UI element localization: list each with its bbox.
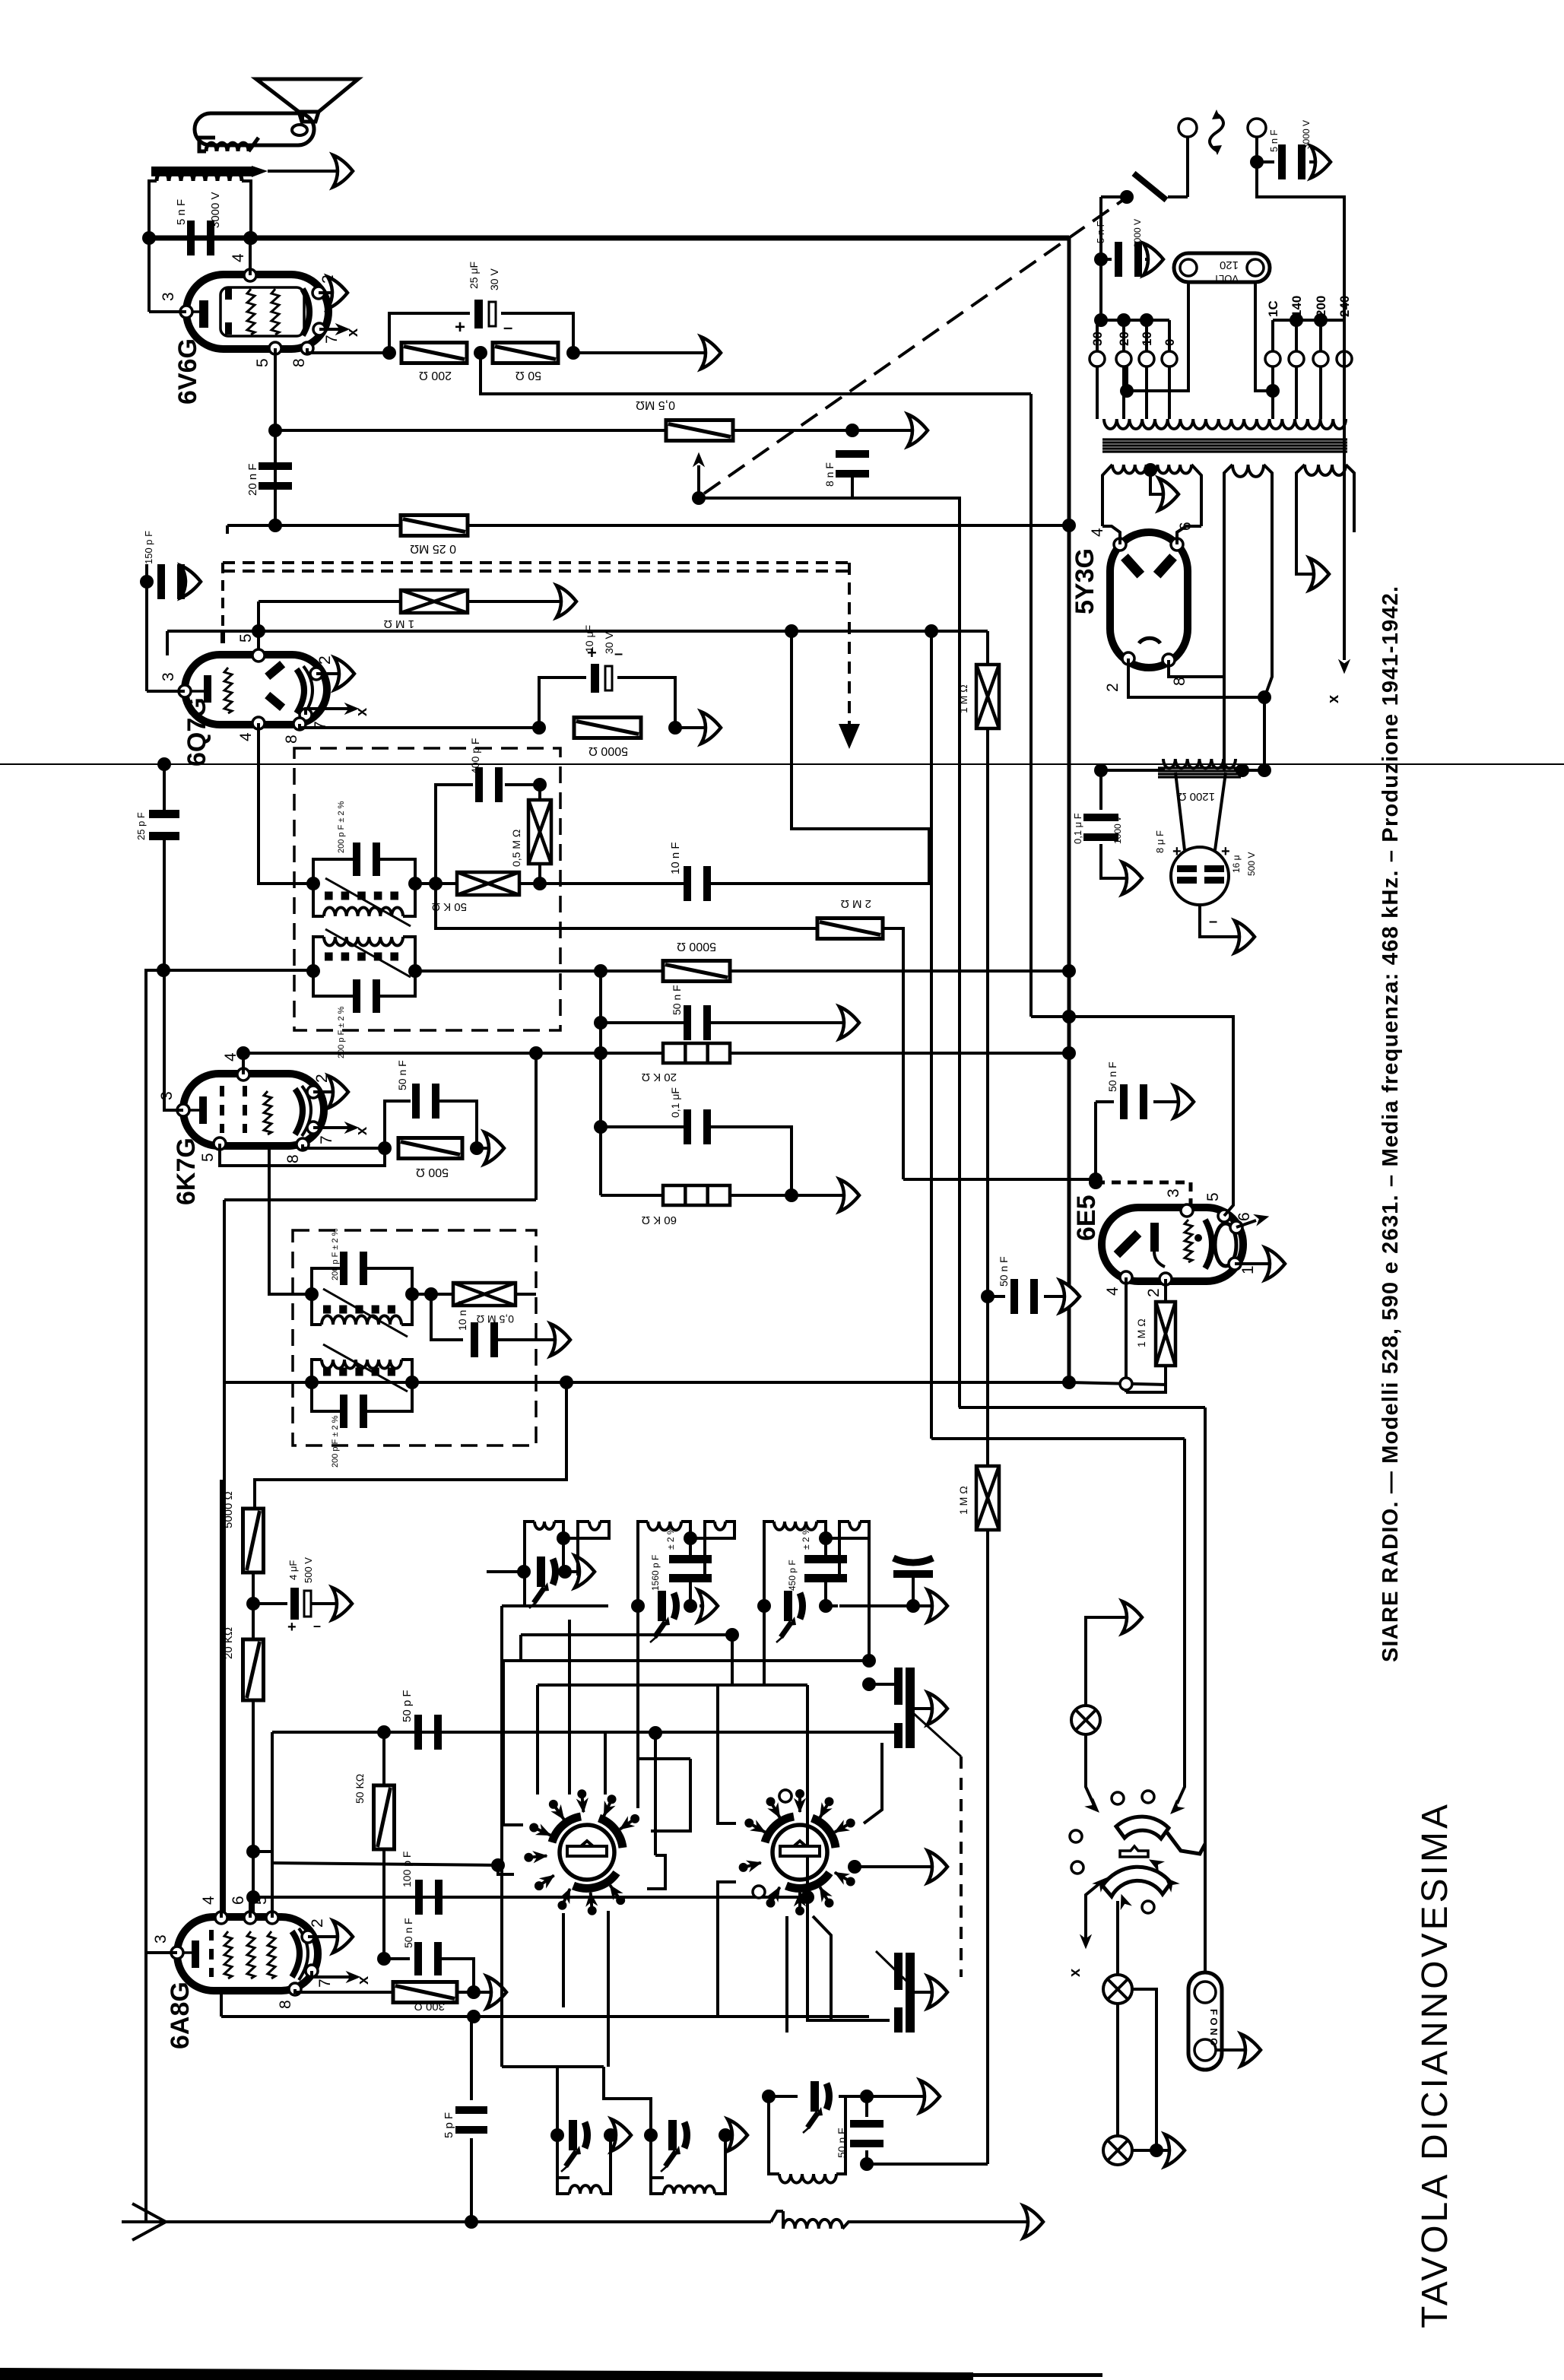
svg-text:5 n F: 5 n F bbox=[1095, 221, 1106, 243]
tube 6V6G envelope bbox=[186, 274, 328, 349]
6E5 pins bbox=[1181, 1204, 1193, 1217]
wire core to terminal bbox=[268, 170, 348, 173]
svg-text:5: 5 bbox=[254, 358, 271, 367]
wire pin8 anode row y957 bbox=[300, 724, 539, 728]
svg-text:5 n F: 5 n F bbox=[1268, 129, 1280, 152]
left long rail bbox=[146, 970, 313, 1932]
resistor 0.5 Mohm bbox=[666, 420, 733, 441]
capacitor 50nF osc tank bbox=[850, 2120, 884, 2128]
B+ bus wire bbox=[149, 236, 1069, 241]
svg-text:8 n F: 8 n F bbox=[823, 462, 836, 487]
capacitor 20nF bbox=[259, 462, 292, 470]
resistor 500 ohm bbox=[398, 1138, 462, 1159]
capacitor 4uF 500V bbox=[253, 1602, 287, 1605]
wire 8nF down to y655 bbox=[699, 478, 852, 498]
resistor 0.25 Mohm bbox=[401, 516, 468, 536]
resistor 5000 ohm vert bbox=[243, 1509, 264, 1572]
wire pin8 down bbox=[295, 1989, 393, 1992]
resistor 2 Mohm bbox=[817, 919, 883, 939]
svg-text:30 V: 30 V bbox=[603, 632, 615, 654]
svg-text:3000 V: 3000 V bbox=[209, 192, 222, 228]
osc tank B bbox=[651, 2135, 664, 2178]
bus y1892 bbox=[931, 1437, 1185, 1440]
wire IF1b to right bbox=[415, 969, 1069, 973]
secondary winding HT bbox=[1112, 465, 1191, 474]
tube 6E5 envelope bbox=[1102, 1207, 1243, 1281]
svg-text:x: x bbox=[1067, 1969, 1083, 1977]
RF tank 1 trimmer bbox=[517, 1565, 531, 1579]
svg-text:4: 4 bbox=[200, 1896, 217, 1905]
AC squiggle bbox=[1210, 114, 1223, 151]
svg-text:1000 v: 1000 v bbox=[1112, 817, 1123, 844]
svg-text:–: – bbox=[503, 318, 512, 337]
grid cap dashed entry bbox=[220, 633, 225, 655]
capacitor 450pF bbox=[804, 1555, 847, 1563]
bus y1851 bbox=[959, 1406, 1205, 1409]
wire 120V left leg bbox=[1127, 282, 1188, 391]
secondary winding mid bbox=[1232, 465, 1264, 477]
capacitor 5pF antenna bbox=[470, 2017, 473, 2100]
svg-text:100 p F: 100 p F bbox=[401, 1852, 413, 1887]
wire primary right down bbox=[242, 181, 251, 236]
svg-text:5: 5 bbox=[237, 633, 255, 643]
capacitor 10nF bbox=[684, 866, 691, 901]
IF1 upper tank box bbox=[313, 859, 356, 884]
bus down x1356 bbox=[1029, 394, 1033, 1017]
svg-text:2 M Ω: 2 M Ω bbox=[841, 897, 871, 910]
scan fold line bbox=[0, 763, 1564, 765]
svg-text:4: 4 bbox=[237, 732, 255, 741]
wire diode load down bbox=[436, 884, 817, 928]
svg-text:10 μF: 10 μF bbox=[583, 625, 595, 652]
svg-text:4: 4 bbox=[230, 253, 247, 262]
tube 6K7G envelope bbox=[183, 1074, 324, 1146]
IF1 shield dashed box bbox=[294, 748, 560, 1030]
resistor 1 Mohm AVC lower bbox=[976, 1466, 999, 1530]
tube 5Y3G envelope bbox=[1110, 532, 1188, 668]
svg-text:500 V: 500 V bbox=[1246, 852, 1257, 876]
svg-text:3: 3 bbox=[1165, 1188, 1182, 1198]
secondary winding left box bbox=[1102, 465, 1112, 526]
wire pin4 up bbox=[249, 238, 252, 275]
wire primary left down bbox=[149, 181, 157, 236]
wire 6K7G plate down to IF2 bbox=[269, 1147, 312, 1294]
RF tank 3 bbox=[764, 1522, 774, 1606]
svg-text:–: – bbox=[1209, 913, 1217, 930]
svg-text:25 μF: 25 μF bbox=[468, 262, 480, 289]
antenna bus bbox=[166, 2220, 771, 2223]
wire pin4 up to bus bbox=[242, 1053, 245, 1074]
x down arrow right bbox=[1339, 660, 1350, 673]
wire IF1 tanks mid bbox=[415, 882, 457, 885]
secondary winding right bbox=[1305, 465, 1346, 475]
X arrow pin7 bbox=[306, 709, 350, 715]
svg-text:2: 2 bbox=[1145, 1288, 1163, 1297]
capacitor 5nF 3000V bbox=[187, 221, 195, 255]
svg-text:0,5 MΩ: 0,5 MΩ bbox=[636, 398, 675, 411]
svg-text:0,5 M Ω: 0,5 M Ω bbox=[510, 830, 522, 867]
wire y2112 to arrow bbox=[839, 1604, 937, 1607]
svg-text:3: 3 bbox=[160, 292, 177, 301]
terminal arrow row y566 bbox=[908, 414, 928, 446]
svg-text:300 Ω: 300 Ω bbox=[414, 2000, 445, 2013]
dash-dot line to mains switch bbox=[704, 198, 1125, 493]
wire 25pF bbox=[163, 764, 166, 811]
6Q7G inner structure bbox=[204, 675, 211, 703]
mains terminal 2 bbox=[1248, 119, 1266, 137]
wire 50ohm tap down to bus bbox=[481, 353, 1031, 394]
wire to chassis arrow bbox=[573, 351, 715, 354]
mains terminal 1 bbox=[1179, 119, 1197, 137]
resistor 0.5 Mohm IF2 bbox=[453, 1283, 516, 1306]
electrolytic bottom lead bbox=[1200, 905, 1247, 937]
svg-text:200 p F ± 2 %: 200 p F ± 2 % bbox=[331, 1415, 340, 1468]
RF tank1 bottom bbox=[502, 1604, 608, 1607]
lamp L2 bbox=[1103, 1975, 1132, 2004]
power transformer primary winding bbox=[1104, 419, 1346, 429]
wire row y830 AVC bus bbox=[167, 630, 988, 633]
6K7G pins bbox=[237, 1068, 249, 1081]
svg-text:50 n F: 50 n F bbox=[998, 1256, 1010, 1287]
S1 spare contacts bbox=[779, 1790, 792, 1802]
node bbox=[594, 1016, 608, 1030]
svg-text:4 μF: 4 μF bbox=[287, 1560, 299, 1580]
up arrow AVC bbox=[697, 465, 700, 498]
speaker bbox=[256, 79, 358, 122]
svg-text:8: 8 bbox=[290, 358, 308, 367]
electrolytic leads bbox=[1175, 773, 1185, 850]
svg-text:6: 6 bbox=[1236, 1212, 1253, 1221]
svg-text:200 Ω: 200 Ω bbox=[419, 369, 452, 382]
svg-text:–: – bbox=[614, 646, 623, 662]
tube 6A8G envelope bbox=[177, 1917, 318, 1991]
lamp L3 wires bbox=[1132, 2149, 1177, 2152]
capacitor 5nF 3000V line bbox=[1250, 155, 1264, 169]
svg-text:7: 7 bbox=[316, 1979, 334, 1988]
svg-text:4: 4 bbox=[222, 1052, 240, 1061]
open junction 6E5 pin4 bbox=[1069, 1382, 1167, 1385]
X arrow pin7 bbox=[313, 1126, 350, 1129]
svg-text:8: 8 bbox=[1171, 677, 1188, 686]
svg-text:6: 6 bbox=[230, 1896, 247, 1905]
svg-text:500 V: 500 V bbox=[303, 1557, 314, 1583]
resistor 50 Kohm vert bbox=[382, 1732, 385, 1785]
6V6G inner structure bbox=[220, 287, 304, 336]
cathode bypass loop bbox=[389, 313, 470, 353]
wire pin3 left bbox=[146, 1951, 177, 1954]
resistor 50 Kohm bbox=[457, 872, 519, 895]
output transformer core bbox=[151, 167, 252, 176]
wire grid return left bbox=[148, 238, 151, 312]
terminal arrow bbox=[333, 155, 353, 187]
lamp L1 bbox=[1071, 1706, 1100, 1734]
lamp L2 wires bbox=[1132, 1989, 1156, 2150]
svg-text:6Q7G: 6Q7G bbox=[182, 697, 211, 766]
capacitor 50nF mid bbox=[601, 1021, 687, 1024]
svg-text:x: x bbox=[355, 1976, 372, 1985]
wire 50nF corner down bbox=[472, 1960, 475, 1992]
svg-text:1 M Ω: 1 M Ω bbox=[1135, 1319, 1147, 1347]
svg-text:SIARE RADIO. — Modelli 528, 59: SIARE RADIO. — Modelli 528, 590 e 2631. … bbox=[1378, 585, 1403, 1662]
svg-text:450 p F: 450 p F bbox=[787, 1560, 798, 1591]
svg-text:6K7G: 6K7G bbox=[172, 1138, 201, 1205]
wire cathode loop 6K7G bbox=[220, 1144, 385, 1166]
RF tank 2 bbox=[638, 1522, 648, 1606]
antenna symbol bbox=[132, 2204, 166, 2240]
svg-text:30 V: 30 V bbox=[488, 268, 500, 290]
svg-text:200 p F ± 2 %: 200 p F ± 2 % bbox=[337, 801, 346, 853]
svg-text:+: + bbox=[1221, 843, 1230, 860]
IF1b coil bbox=[324, 937, 403, 946]
wire pin8 down bbox=[303, 1144, 385, 1148]
svg-text:5: 5 bbox=[199, 1153, 217, 1162]
gang stator stub bbox=[869, 1683, 894, 1686]
wire pin3 left bbox=[149, 310, 186, 313]
anode loop 10uF bbox=[539, 678, 586, 728]
svg-text:5 n F: 5 n F bbox=[175, 199, 188, 225]
5Y3G plate wires bbox=[1102, 526, 1120, 544]
wire 6Q7G pin4 down to IF1 bbox=[259, 723, 313, 884]
voice coil bbox=[206, 143, 249, 151]
capacitor 1560pF bbox=[669, 1555, 712, 1563]
svg-text:7: 7 bbox=[318, 1135, 335, 1144]
5Y3G inner structure bbox=[1121, 554, 1144, 578]
IF2b tank bbox=[322, 1360, 401, 1369]
svg-text:x: x bbox=[344, 328, 361, 337]
antenna coil bbox=[771, 2211, 783, 2222]
node B+ right bbox=[244, 231, 258, 245]
capacitor 50nF osc bbox=[384, 1957, 410, 1960]
wire 50K to 10nF row bbox=[540, 882, 687, 885]
capacitor 150pF bbox=[140, 575, 154, 589]
400pF loop bbox=[436, 785, 473, 884]
wire contact to lamp2 bbox=[1116, 1901, 1119, 1975]
node B+ left bbox=[142, 231, 156, 245]
gang diagonal bbox=[912, 1712, 961, 1756]
resistor 5000 ohm mid bbox=[663, 961, 730, 982]
resistor 50 ohm bbox=[493, 343, 558, 363]
wire pin5 up bbox=[1031, 1017, 1233, 1216]
svg-text:50 p F: 50 p F bbox=[401, 1690, 414, 1722]
resistor 1 Mohm row y791 bbox=[259, 600, 400, 603]
wire 10nF right bbox=[711, 631, 929, 884]
wire IF2 mid bbox=[412, 1293, 453, 1296]
svg-text:50 n F: 50 n F bbox=[836, 2128, 848, 2158]
wire gang bottom bbox=[807, 1897, 890, 2020]
svg-text:± 2 %: ± 2 % bbox=[801, 1526, 811, 1550]
RF tank 3 trimmer bbox=[757, 1599, 771, 1613]
wire choke node down bbox=[1236, 763, 1249, 777]
X arrow pin7 bbox=[319, 328, 341, 331]
wire 8nF row to right bus bbox=[852, 498, 960, 1407]
wire x295 rail bbox=[224, 1198, 536, 1201]
svg-text:5000 Ω: 5000 Ω bbox=[588, 744, 628, 757]
svg-text:1 M Ω: 1 M Ω bbox=[957, 684, 969, 713]
S3 foot to FONO bbox=[1167, 1833, 1205, 1854]
bus y1551 bbox=[903, 1178, 1096, 1181]
bus y1385 bbox=[243, 1052, 1069, 1055]
svg-text:5: 5 bbox=[1204, 1192, 1222, 1201]
wire pin3 left bbox=[164, 1109, 183, 1112]
S1 contact wires bbox=[503, 1685, 523, 1825]
wire pin5 down bbox=[274, 348, 277, 525]
svg-text:6A8G: 6A8G bbox=[166, 1982, 195, 2049]
dual electrolytic 8uF 16uF bbox=[1171, 847, 1229, 905]
svg-text:8: 8 bbox=[284, 1154, 302, 1163]
wire pin2 terminal bbox=[308, 1935, 345, 1938]
svg-text:200 p F ± 2 %: 200 p F ± 2 % bbox=[337, 1006, 346, 1058]
terminal arrow y957 bbox=[701, 712, 721, 744]
wire pin5 up bbox=[271, 1732, 274, 1918]
shielded grid lead double dashed bbox=[223, 561, 849, 564]
svg-text:3000 V: 3000 V bbox=[1132, 219, 1143, 248]
output primary coil bbox=[157, 172, 242, 181]
wire pin3 left bbox=[147, 690, 185, 693]
vertical x1143 bbox=[868, 1559, 871, 1661]
wire 400pF from B+ node bbox=[538, 785, 541, 800]
switch S3 key bbox=[1120, 1846, 1148, 1857]
long vertical x1225 from AVC bus bbox=[930, 631, 933, 1439]
S3 contact dots bbox=[1112, 1792, 1124, 1804]
secondary center tap bbox=[1144, 463, 1157, 477]
IF2 shield dashed box bbox=[293, 1230, 536, 1445]
resistor 200 ohm bbox=[401, 343, 467, 363]
resistor 1 Mohm 6E5 bbox=[1164, 1279, 1167, 1302]
S3 lower contacts bbox=[1093, 1874, 1110, 1891]
svg-text:50 n F: 50 n F bbox=[402, 1918, 414, 1948]
capacitor 25pF vertical bbox=[157, 757, 171, 771]
svg-text:2: 2 bbox=[316, 655, 334, 665]
wire pin4 down bbox=[1125, 1277, 1128, 1392]
wire left end y830 bbox=[166, 631, 169, 655]
resistor 20 Kohm vert bbox=[243, 1639, 264, 1700]
dashed grid link 6E5 bbox=[1096, 1181, 1191, 1185]
IF1a coil bbox=[324, 907, 403, 916]
wire 150pF stub bbox=[226, 525, 229, 534]
FONO jack bbox=[1188, 1972, 1222, 2070]
svg-text:7: 7 bbox=[323, 335, 341, 344]
svg-text:20 n F: 20 n F bbox=[246, 463, 259, 496]
svg-text:10 n F: 10 n F bbox=[669, 842, 682, 874]
svg-text:8 μ F: 8 μ F bbox=[1154, 830, 1166, 853]
speaker horn bbox=[195, 113, 314, 145]
X arrow pin7 bbox=[312, 1971, 351, 1977]
variable capacitor osc section bbox=[894, 1953, 903, 1990]
wire row y566 bbox=[275, 429, 665, 432]
wire cathode down to choke node bbox=[1263, 697, 1266, 770]
RF tank 1 coils bbox=[525, 1522, 535, 1606]
svg-text:20 K Ω: 20 K Ω bbox=[642, 1071, 677, 1084]
svg-text:x: x bbox=[354, 1127, 370, 1135]
svg-text:0,1 μF: 0,1 μF bbox=[669, 1087, 681, 1118]
variable capacitor antenna section bbox=[894, 1668, 903, 1705]
wire row y691 bbox=[227, 524, 1069, 527]
node y691 bbox=[268, 519, 282, 532]
osc tank C bbox=[769, 2096, 779, 2174]
wire from y1892 down to switch S3 bbox=[1177, 1439, 1185, 1804]
svg-text:1560 p F: 1560 p F bbox=[650, 1555, 661, 1591]
IF1a core dashes bbox=[325, 892, 333, 900]
capacitor 50pF bbox=[414, 1715, 422, 1750]
6E5 inner structure bbox=[1114, 1230, 1142, 1258]
S2 spare contacts bbox=[779, 1790, 792, 1802]
svg-text:± 2 %: ± 2 % bbox=[665, 1526, 676, 1550]
svg-text:150 p F: 150 p F bbox=[143, 531, 154, 564]
svg-text:TAVOLA DICIANNOVESIMA: TAVOLA DICIANNOVESIMA bbox=[1415, 1801, 1455, 2328]
antenna trimmer bbox=[868, 1538, 871, 1559]
IF1b tuning arrow bbox=[325, 929, 411, 977]
svg-text:1200 Ω: 1200 Ω bbox=[1178, 790, 1215, 803]
left rail to antenna bbox=[144, 1932, 148, 2222]
vertical from pin5 6Q7G bbox=[257, 631, 260, 655]
svg-text:50 n F: 50 n F bbox=[671, 985, 683, 1015]
svg-text:5Y3G: 5Y3G bbox=[1071, 548, 1099, 614]
svg-text:+: + bbox=[1172, 843, 1182, 860]
tube 6Q7G envelope bbox=[185, 655, 327, 725]
resistor 300 ohm bbox=[393, 1982, 457, 2003]
6V6G pins bbox=[244, 269, 256, 281]
svg-text:+: + bbox=[287, 1619, 297, 1636]
capacitor 200pF IF1b bbox=[313, 971, 356, 996]
wire row 50pF y2278 bbox=[272, 1731, 894, 1734]
wire pin2 terminal bbox=[316, 672, 347, 675]
svg-text:x: x bbox=[1325, 695, 1342, 703]
svg-text:6V6G: 6V6G bbox=[173, 338, 202, 405]
FONO wires bbox=[1204, 1835, 1207, 1972]
svg-text:10 n F: 10 n F bbox=[456, 1300, 468, 1331]
svg-text:50 n F: 50 n F bbox=[1106, 1061, 1118, 1092]
6K7G inner structure bbox=[199, 1096, 207, 1124]
svg-text:2: 2 bbox=[1104, 683, 1121, 692]
svg-text:60 K Ω: 60 K Ω bbox=[642, 1214, 677, 1226]
svg-text:1C: 1C bbox=[1266, 300, 1280, 317]
svg-text:1: 1 bbox=[1239, 1265, 1257, 1274]
svg-text:–: – bbox=[313, 1618, 321, 1633]
bus y1818 bbox=[224, 1381, 1069, 1384]
svg-text:+: + bbox=[455, 317, 465, 338]
wire pin4 up bbox=[220, 1480, 223, 1918]
svg-text:50 Ω: 50 Ω bbox=[516, 369, 541, 382]
capacitor 25uF 30V electrolytic bbox=[474, 300, 483, 328]
capacitor 100pF bbox=[415, 1880, 423, 1915]
50nF branch x1299 bbox=[981, 1290, 995, 1303]
scan bar bottom bbox=[0, 2368, 973, 2380]
secondary right leads bbox=[1296, 525, 1321, 574]
wire pin1 terminal bbox=[1235, 1262, 1277, 1265]
wire terminal2 down to tap rail bbox=[1257, 162, 1344, 320]
svg-text:5 p F: 5 p F bbox=[443, 2112, 455, 2138]
svg-text:F O N O: F O N O bbox=[1208, 2009, 1220, 2045]
capacitor 400pF bbox=[475, 767, 483, 802]
120 VOLT plate bbox=[1174, 253, 1270, 282]
svg-text:25 p F: 25 p F bbox=[135, 812, 147, 840]
svg-text:8: 8 bbox=[277, 2000, 294, 2009]
gang dashed link bbox=[960, 1756, 963, 1977]
resistor 60 Kohm bbox=[599, 1127, 602, 1195]
wire from y1851 to FONO bbox=[1204, 1407, 1207, 1835]
RF tank4 trimmer to ground bbox=[893, 1558, 933, 1563]
capacitor 0.1uF bbox=[594, 1120, 608, 1134]
mesh wires bbox=[521, 1633, 732, 1636]
IF1b core dashes bbox=[325, 953, 333, 961]
capacitor 0.1uF 1000V bbox=[1083, 814, 1118, 821]
wire 120V right leg bbox=[1255, 282, 1273, 391]
rotary switch S2 bbox=[765, 1817, 836, 1888]
5Y3G pins bbox=[1114, 538, 1126, 551]
S2 contact wires bbox=[718, 1685, 736, 1823]
5Y3G cathode out bbox=[1128, 658, 1264, 697]
tube bottom rail to bus bbox=[220, 1991, 223, 2017]
